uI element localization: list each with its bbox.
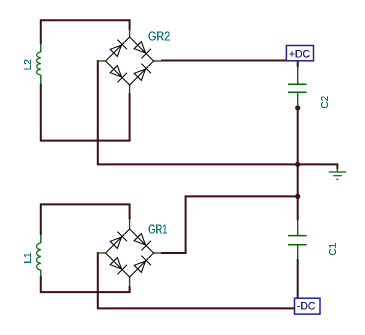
svg-text:C1: C1	[328, 242, 339, 255]
svg-text:GR1: GR1	[148, 222, 167, 237]
svg-text:L1: L1	[23, 252, 34, 264]
svg-text:C2: C2	[320, 95, 331, 108]
svg-text:+DC: +DC	[289, 48, 310, 60]
svg-text:L2: L2	[23, 59, 34, 71]
svg-text:GR2: GR2	[148, 29, 170, 44]
svg-text:-DC: -DC	[297, 301, 316, 313]
